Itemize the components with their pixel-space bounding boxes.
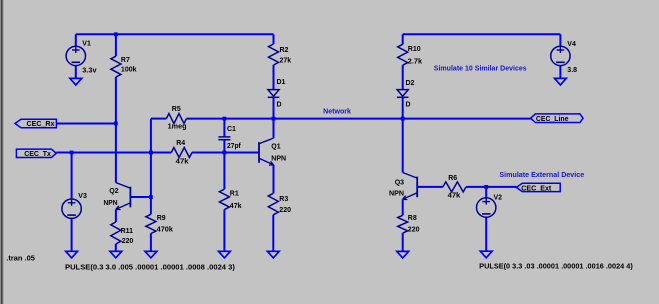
- wire V4 bottom stem: [559, 66, 561, 79]
- svg-text:D: D: [277, 101, 282, 108]
- svg-text:R4: R4: [176, 140, 185, 147]
- resistor R2: [269, 44, 279, 65]
- wire R11 to ground: [115, 244, 117, 251]
- svg-text:R8: R8: [408, 215, 417, 222]
- svg-text:R10: R10: [408, 46, 421, 53]
- wire V1 bottom stem: [75, 66, 77, 79]
- resistor R5: [166, 114, 186, 124]
- svg-text:R5: R5: [172, 106, 181, 113]
- svg-text:Q1: Q1: [271, 143, 280, 150]
- wire V2 bottom stem: [485, 217, 487, 251]
- ground: [70, 78, 82, 85]
- ground: [267, 251, 279, 258]
- wire R5 corner down to R9: [150, 119, 152, 215]
- svg-text:CEC_Line: CEC_Line: [536, 116, 569, 123]
- node V2 junction: [484, 185, 488, 189]
- node top rail / R7: [114, 32, 118, 36]
- node V3 junction: [70, 151, 74, 155]
- svg-text:47k: 47k: [176, 159, 189, 166]
- svg-text:Q2: Q2: [109, 188, 118, 195]
- voltage source V1: [66, 46, 85, 65]
- port flag CEC_Tx: [16, 149, 56, 157]
- svg-text:C1: C1: [227, 126, 236, 133]
- svg-text:R1: R1: [230, 191, 239, 198]
- svg-text:V2: V2: [494, 194, 503, 201]
- wire Q3 emitter to R8: [402, 199, 404, 215]
- window border: [0, 0, 1, 304]
- wire R1 top lead: [223, 153, 225, 190]
- wire V2 top stem: [485, 187, 487, 198]
- port flag CEC_Ext: [516, 183, 560, 191]
- wire R1 to ground: [223, 210, 225, 252]
- wire C1 bottom lead: [223, 140, 225, 153]
- wire Q3 base to R6: [417, 186, 443, 188]
- svg-text:NPN: NPN: [389, 190, 404, 197]
- svg-text:470k: 470k: [157, 227, 173, 234]
- ground: [397, 251, 409, 258]
- svg-text:R7: R7: [121, 57, 130, 64]
- transistor Q1: [259, 138, 274, 165]
- svg-text:NPN: NPN: [271, 156, 286, 163]
- resistor R8: [398, 215, 408, 233]
- node C1 top junction: [223, 117, 227, 121]
- node CEC_Rx junction: [114, 122, 118, 126]
- svg-text:R9: R9: [157, 215, 166, 222]
- svg-text:3.3v: 3.3v: [82, 68, 96, 75]
- wire R6 to CEC_Ext: [466, 186, 516, 188]
- resistor R4: [171, 148, 192, 158]
- svg-text:.tran .05: .tran .05: [6, 256, 35, 263]
- wire D2 to network: [402, 97, 404, 118]
- wire R4 to Q1 base: [192, 152, 259, 154]
- svg-text:220: 220: [122, 238, 134, 245]
- wire R7 to Q2 collector: [115, 77, 117, 183]
- resistor R11: [111, 222, 121, 244]
- svg-text:PULSE(0 3.3 .03 .00001 .00001: PULSE(0 3.3 .03 .00001 .00001 .0016 .002…: [479, 261, 633, 270]
- wire Q3 collector: [402, 119, 404, 173]
- wire R8 to ground: [402, 233, 404, 251]
- svg-text:Q3: Q3: [395, 180, 404, 187]
- node Q2 base junction: [149, 195, 153, 199]
- svg-text:2.7k: 2.7k: [408, 59, 422, 66]
- port flag CEC_Line: [531, 114, 583, 123]
- wire R10 to D2: [402, 65, 404, 89]
- svg-text:47k: 47k: [448, 193, 461, 200]
- wire V3 top stem: [71, 153, 73, 199]
- wire R2 to D1: [273, 65, 275, 90]
- svg-text:Simulate External Device: Simulate External Device: [499, 172, 584, 179]
- wire V4 top stem: [559, 34, 561, 46]
- wire R9 to ground: [150, 234, 152, 252]
- node base column junction: [149, 151, 153, 155]
- svg-text:CEC_Ext: CEC_Ext: [521, 185, 552, 192]
- transistor Q3: [403, 173, 418, 200]
- svg-text:V4: V4: [567, 41, 576, 48]
- svg-text:220: 220: [408, 226, 420, 233]
- wire network left / R5 lead: [151, 118, 167, 120]
- ground: [555, 78, 567, 85]
- svg-text:D1: D1: [277, 79, 286, 86]
- wire V1 top stem: [75, 34, 77, 46]
- ground: [480, 251, 492, 258]
- diode D2: [397, 90, 408, 97]
- svg-text:V3: V3: [78, 193, 87, 200]
- svg-text:R2: R2: [280, 47, 289, 54]
- svg-text:27k: 27k: [280, 57, 292, 64]
- svg-text:Network: Network: [323, 109, 351, 116]
- capacitor C1: [218, 137, 230, 140]
- wire network bus: [187, 118, 531, 120]
- resistor R3: [268, 193, 278, 215]
- wire Q2 base lead: [130, 196, 151, 198]
- svg-text:Simulate 10 Similar Devices: Simulate 10 Similar Devices: [434, 65, 527, 72]
- voltage source V2: [477, 198, 496, 217]
- resistor R10: [398, 44, 408, 65]
- ground: [66, 251, 78, 258]
- wire R7 top lead: [115, 34, 117, 56]
- svg-text:47k: 47k: [230, 203, 242, 210]
- resistor R1: [219, 189, 229, 209]
- wire top rail left: [76, 33, 274, 35]
- ground: [219, 251, 231, 258]
- svg-text:D2: D2: [406, 80, 415, 87]
- node network / D1 / Q1: [272, 117, 276, 121]
- resistor R6: [443, 182, 466, 192]
- wire R10 top lead: [402, 34, 404, 44]
- node C1/R1 junction: [223, 151, 227, 155]
- svg-text:100k: 100k: [121, 66, 137, 73]
- wire R3 to ground: [272, 215, 274, 252]
- svg-text:R11: R11: [121, 228, 134, 235]
- voltage source V3: [62, 199, 81, 218]
- ground: [145, 251, 157, 258]
- wire Q1 collector: [273, 119, 275, 139]
- wire D1 to network: [273, 97, 275, 118]
- diode D1: [268, 90, 279, 97]
- svg-text:27pf: 27pf: [227, 143, 241, 150]
- wire Q1 emitter to R3: [273, 165, 275, 193]
- svg-text:R6: R6: [448, 175, 457, 182]
- voltage source V4: [551, 46, 570, 65]
- svg-text:R3: R3: [279, 196, 288, 203]
- transistor Q2: [116, 183, 130, 210]
- svg-text:NPN: NPN: [104, 200, 118, 207]
- resistor R7: [111, 56, 121, 77]
- svg-text:PULSE(0.3 3.0 .005 .00001 .000: PULSE(0.3 3.0 .005 .00001 .00001 .0008 .…: [65, 262, 235, 271]
- svg-text:1meg: 1meg: [168, 124, 187, 131]
- svg-text:V1: V1: [82, 40, 91, 47]
- ground: [110, 251, 122, 258]
- svg-text:CEC_Rx: CEC_Rx: [27, 121, 55, 128]
- port flag CEC_Rx: [15, 119, 56, 127]
- wire CEC_Rx: [56, 123, 116, 125]
- wire R2 top lead: [273, 34, 275, 44]
- svg-text:3.8: 3.8: [567, 67, 577, 74]
- node network / D2 / Q3: [401, 117, 405, 121]
- svg-text:D: D: [406, 102, 411, 109]
- wire CEC_Tx to R4: [56, 152, 171, 154]
- wire C1 top lead: [223, 119, 225, 137]
- wire top rail right: [403, 33, 561, 35]
- resistor R9: [146, 214, 156, 233]
- wire Q2 emitter to R11: [115, 209, 117, 222]
- wire V3 bottom stem: [71, 219, 73, 252]
- svg-text:220: 220: [279, 207, 291, 214]
- svg-text:CEC_Tx: CEC_Tx: [24, 151, 51, 158]
